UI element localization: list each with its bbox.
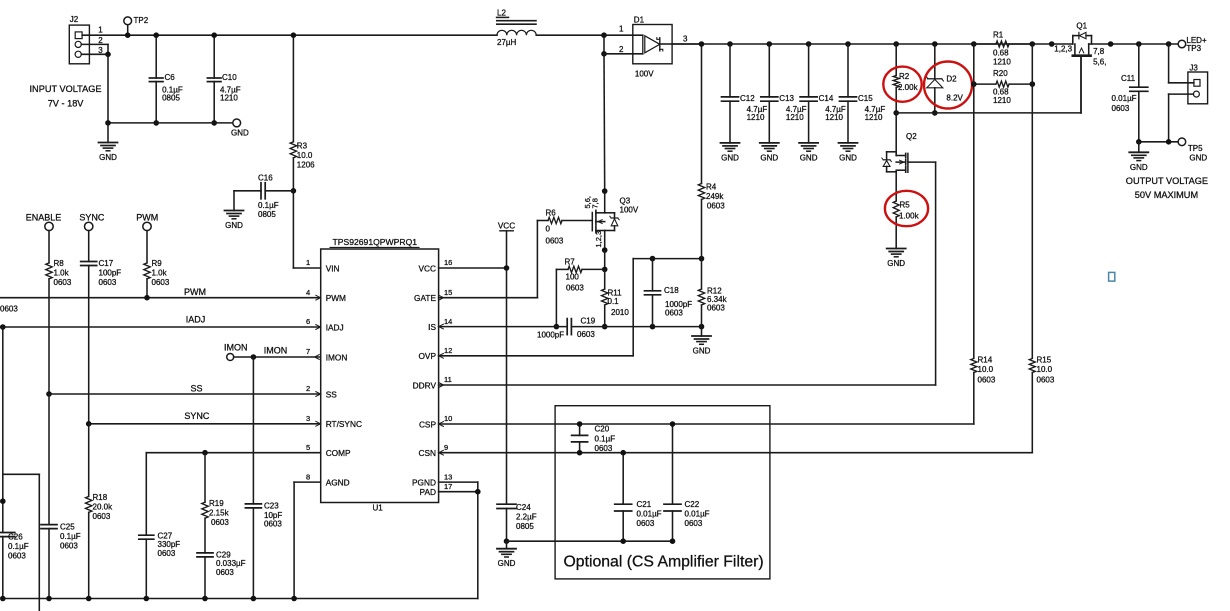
test point GND input	[231, 119, 249, 138]
node OVP R4 R12 junction	[699, 256, 705, 262]
wire J3 pin2 to output ground	[1169, 94, 1194, 142]
svg-text:COMP: COMP	[326, 448, 351, 458]
ground symbol input	[99, 123, 118, 162]
svg-text:0603: 0603	[8, 552, 26, 561]
node R12 bottom ground	[699, 324, 705, 330]
node C11 top	[1136, 41, 1142, 47]
svg-text:CSP: CSP	[419, 419, 437, 429]
node D1 pin1 junction	[601, 32, 607, 38]
capacitor C19	[537, 317, 596, 340]
node D2 bottom junction	[932, 110, 938, 116]
wire VCC down to C24	[506, 268, 508, 504]
wire input VIN+ top rail	[82, 34, 497, 36]
svg-text:17: 17	[444, 482, 452, 491]
svg-text:0603: 0603	[566, 283, 584, 292]
node OVP C18 junction	[650, 256, 656, 262]
resistor R15	[1029, 356, 1055, 453]
svg-text:VCC: VCC	[498, 221, 515, 230]
node PGND PAD junction	[475, 489, 481, 495]
svg-text:1210: 1210	[865, 113, 883, 122]
test point TP3 LED+	[1178, 36, 1207, 53]
svg-text:0603: 0603	[685, 519, 703, 528]
node C14 top	[806, 41, 812, 47]
svg-text:0603: 0603	[211, 518, 229, 527]
svg-text:GND: GND	[99, 153, 117, 162]
capacitor C21	[615, 453, 662, 542]
box optional CS amplifier filter	[555, 406, 770, 579]
node rail C23	[251, 596, 257, 602]
node C13 top	[767, 41, 773, 47]
svg-text:IADJ: IADJ	[186, 315, 206, 325]
svg-text:0603: 0603	[707, 303, 725, 312]
node C12 top	[727, 41, 733, 47]
wire U1 CSN to R15	[439, 452, 1033, 454]
svg-text:VIN: VIN	[326, 263, 340, 273]
svg-text:L2: L2	[497, 9, 506, 18]
wire left branch stub vertical	[38, 474, 40, 611]
wire gate rail R2 D2 to Q1 gate	[896, 57, 1081, 113]
svg-text:R1: R1	[993, 31, 1004, 40]
svg-text:Q2: Q2	[906, 132, 917, 141]
wire D1 pin3 to output rail	[672, 43, 701, 45]
node J3 pin2 bottom	[1166, 139, 1172, 145]
node R1 left	[971, 41, 977, 47]
svg-text:20.0k: 20.0k	[93, 503, 114, 512]
node IMON junction	[251, 354, 257, 360]
svg-text:D1: D1	[634, 16, 645, 25]
svg-text:PWM: PWM	[326, 293, 346, 303]
wire R3 to U1 VIN	[293, 267, 320, 269]
svg-text:1.00k: 1.00k	[899, 211, 920, 220]
svg-text:VCC: VCC	[418, 263, 436, 273]
resistor R20	[974, 69, 1033, 105]
svg-text:0.1µF: 0.1µF	[8, 542, 29, 551]
node rail AGND	[291, 596, 297, 602]
svg-text:R9: R9	[152, 259, 163, 268]
svg-text:0: 0	[546, 225, 551, 234]
svg-text:GND: GND	[887, 259, 905, 268]
svg-text:PWM: PWM	[184, 287, 206, 297]
svg-text:R3: R3	[297, 142, 308, 151]
test point TP5 GND	[1178, 138, 1207, 162]
svg-text:2: 2	[306, 384, 310, 393]
svg-text:7V - 18V: 7V - 18V	[48, 99, 85, 109]
svg-text:10.0: 10.0	[1037, 365, 1053, 374]
node D2 top	[932, 41, 938, 47]
svg-text:C13: C13	[779, 94, 794, 103]
svg-text:10: 10	[444, 414, 452, 423]
svg-text:R8: R8	[54, 259, 65, 268]
node rail R18	[86, 596, 92, 602]
svg-text:2.2µF: 2.2µF	[516, 513, 537, 522]
svg-text:2.00k: 2.00k	[898, 83, 919, 92]
svg-text:1000pF: 1000pF	[537, 331, 564, 340]
node D1 pin2 junction	[601, 51, 607, 57]
wire J2 pin3 to input ground rail	[107, 54, 109, 123]
node R7 junction	[602, 267, 608, 273]
svg-text:SYNC: SYNC	[184, 411, 210, 421]
svg-text:0603: 0603	[1112, 104, 1130, 113]
ground symbol C24	[497, 541, 516, 568]
resistor R8	[46, 231, 72, 394]
wire input ground rail	[108, 122, 233, 124]
node VCC junction	[504, 265, 510, 271]
svg-text:13: 13	[444, 472, 452, 481]
svg-text:C19: C19	[581, 317, 596, 326]
svg-text:TP5: TP5	[1188, 144, 1203, 153]
svg-text:RT/SYNC: RT/SYNC	[326, 419, 362, 429]
svg-text:0.01µF: 0.01µF	[1112, 94, 1137, 103]
svg-text:Q3: Q3	[620, 197, 631, 206]
capacitor C29	[197, 551, 246, 599]
svg-text:CSN: CSN	[418, 448, 436, 458]
ground symbol C12	[721, 143, 740, 163]
svg-text:0603: 0603	[546, 237, 564, 246]
svg-text:6: 6	[306, 317, 310, 326]
svg-text:1: 1	[619, 25, 624, 34]
ground symbol output	[1129, 142, 1148, 172]
node rail C26	[0, 596, 6, 602]
capacitor C18	[645, 259, 693, 327]
svg-text:PAD: PAD	[420, 487, 436, 497]
svg-text:PWM: PWM	[136, 213, 158, 223]
svg-text:4: 4	[306, 288, 310, 297]
wire output rail after Q1	[1089, 43, 1178, 45]
wire output rail	[672, 43, 1052, 45]
capacitor C27	[139, 453, 180, 599]
capacitor C20	[572, 424, 616, 453]
pin numbers U1 right	[444, 258, 452, 491]
diode D2 zener 8.2V	[926, 44, 963, 113]
capacitor C13 4.7uF	[761, 44, 807, 143]
svg-text:0603: 0603	[99, 278, 117, 287]
resistor R18	[86, 424, 114, 599]
svg-text:7,8: 7,8	[1093, 47, 1105, 56]
svg-text:1210: 1210	[220, 93, 238, 102]
svg-text:8.2V: 8.2V	[946, 93, 963, 102]
svg-text:0603: 0603	[60, 542, 78, 551]
svg-text:C12: C12	[740, 94, 755, 103]
ground symbol C14	[799, 143, 818, 163]
highlight circle D2	[924, 62, 972, 109]
wire net PWM	[0, 287, 321, 298]
ground symbol R12	[692, 327, 711, 356]
wire C24 node to CS filter	[507, 540, 673, 542]
resistor R5	[893, 200, 919, 248]
pin arrows U1	[315, 295, 444, 455]
svg-text:0603: 0603	[707, 201, 725, 210]
wire CSP sense vertical	[973, 44, 975, 358]
svg-text:1210: 1210	[747, 113, 765, 122]
resistor R2	[893, 44, 918, 113]
node C10 top	[211, 32, 217, 38]
svg-text:15: 15	[444, 288, 452, 297]
capacitor C23	[245, 502, 282, 599]
node R3 C16 junction	[291, 188, 297, 194]
svg-text:IADJ: IADJ	[326, 322, 344, 332]
svg-text:C17: C17	[99, 259, 114, 268]
wire U1 PAD pin	[439, 491, 478, 493]
capacitor C11	[1112, 44, 1148, 142]
node TP2 junction	[125, 32, 131, 38]
svg-text:C25: C25	[60, 523, 75, 532]
svg-text:1210: 1210	[993, 57, 1011, 66]
resistor R4	[698, 44, 725, 259]
test point IMON	[224, 343, 248, 361]
svg-text:330pF: 330pF	[158, 540, 181, 549]
svg-text:R4: R4	[706, 182, 717, 191]
svg-text:11: 11	[444, 375, 452, 384]
svg-text:GND: GND	[1130, 163, 1148, 172]
svg-text:7,8: 7,8	[590, 198, 599, 208]
wire IADJ left branch vertical	[2, 327, 4, 533]
wire U1 PGND pin	[439, 481, 478, 483]
svg-text:0805: 0805	[516, 522, 534, 531]
wire net SS	[49, 384, 321, 395]
node C18 bottom	[650, 324, 656, 330]
wire U1 DDRV to Q2 gate	[439, 162, 936, 385]
node R2 bottom junction	[893, 110, 899, 116]
svg-text:3: 3	[683, 35, 688, 44]
node rail after Q1	[1108, 41, 1114, 47]
svg-text:C16: C16	[258, 174, 273, 183]
svg-text:SYNC: SYNC	[79, 213, 105, 223]
svg-text:TP2: TP2	[134, 16, 149, 25]
svg-text:0603: 0603	[152, 278, 170, 287]
node C15 top	[845, 41, 851, 47]
wire AGND to ground rail	[294, 482, 321, 598]
wire IS line right of C19	[571, 326, 701, 328]
svg-text:C22: C22	[685, 500, 700, 509]
svg-text:5,6,: 5,6,	[1093, 58, 1106, 67]
svg-text:GND: GND	[839, 153, 857, 162]
node R9 PWM junction	[144, 295, 150, 301]
power symbol VCC	[498, 221, 515, 268]
svg-text:3: 3	[98, 46, 103, 55]
svg-text:0.033µF: 0.033µF	[216, 559, 246, 568]
svg-text:2.15k: 2.15k	[209, 509, 230, 518]
svg-text:R19: R19	[209, 499, 224, 508]
svg-text:0.1µF: 0.1µF	[595, 435, 616, 444]
svg-text:R15: R15	[1037, 356, 1052, 365]
node Q1 left junction	[1049, 41, 1055, 47]
svg-text:R6: R6	[546, 209, 557, 218]
svg-text:GND: GND	[760, 153, 778, 162]
svg-text:C15: C15	[858, 94, 873, 103]
node C20 top	[577, 421, 583, 427]
node rail C29	[202, 596, 208, 602]
svg-text:0603: 0603	[216, 568, 234, 577]
svg-text:TP3: TP3	[1186, 44, 1201, 53]
svg-text:100pF: 100pF	[99, 269, 122, 278]
svg-text:100V: 100V	[620, 206, 639, 215]
ground symbol R5	[887, 249, 906, 269]
svg-text:1210: 1210	[825, 113, 843, 122]
test point ENABLE	[26, 213, 62, 231]
svg-text:9: 9	[444, 443, 448, 452]
node R8 SS junction	[46, 391, 52, 397]
svg-text:R18: R18	[93, 493, 108, 502]
svg-text:1210: 1210	[786, 113, 804, 122]
svg-text:R7: R7	[565, 257, 576, 266]
node R3 top rail	[291, 32, 297, 38]
wire output ground rail	[1139, 141, 1178, 143]
svg-text:1.0k: 1.0k	[54, 269, 70, 278]
node R20 left	[971, 81, 977, 87]
resistor R6	[546, 209, 593, 246]
svg-text:0.1µF: 0.1µF	[60, 532, 81, 541]
resistor R11	[602, 269, 630, 326]
svg-text:27µH: 27µH	[497, 38, 517, 47]
svg-text:50V MAXIMUM: 50V MAXIMUM	[1135, 190, 1198, 200]
svg-text:AGND: AGND	[326, 478, 350, 488]
capacitor C6	[149, 35, 182, 123]
node C11 bottom	[1136, 139, 1142, 145]
connector J3	[1188, 64, 1208, 104]
node rail C27	[144, 596, 150, 602]
svg-text:C24: C24	[516, 503, 531, 512]
svg-text:1: 1	[98, 26, 103, 35]
capacitor C14 4.7uF	[800, 44, 846, 143]
transistor Q1	[1052, 22, 1107, 113]
svg-text:GND: GND	[225, 221, 243, 230]
node input ground junction	[105, 120, 111, 126]
svg-text:0603: 0603	[595, 444, 613, 453]
node C6 bottom	[153, 120, 159, 126]
svg-text:1,2,3: 1,2,3	[594, 231, 603, 248]
wire net IADJ	[0, 315, 321, 328]
wire U1 CSP to R14	[439, 423, 974, 425]
node Q3 source	[602, 247, 608, 253]
node R19 COMP junction	[202, 450, 208, 456]
svg-text:2010: 2010	[611, 308, 629, 317]
svg-text:0.01µF: 0.01µF	[685, 510, 710, 519]
svg-text:Q1: Q1	[1076, 22, 1087, 31]
svg-text:GND: GND	[693, 347, 711, 356]
svg-text:J3: J3	[1189, 64, 1198, 73]
node Q3 drain junction	[602, 188, 608, 194]
node C21 top	[620, 450, 626, 456]
svg-text:Optional (CS Amplifier Filter): Optional (CS Amplifier Filter)	[564, 554, 764, 571]
svg-text:7: 7	[306, 347, 310, 356]
svg-text:0603: 0603	[93, 512, 111, 521]
wire net IMON	[234, 346, 321, 358]
resistor R12	[698, 259, 727, 327]
svg-text:0603: 0603	[1037, 376, 1055, 385]
svg-text:J2: J2	[70, 15, 79, 24]
svg-text:0603: 0603	[978, 376, 996, 385]
svg-text:C26: C26	[8, 533, 23, 542]
svg-text:OUTPUT VOLTAGE: OUTPUT VOLTAGE	[1126, 176, 1208, 186]
svg-text:249k: 249k	[706, 192, 724, 201]
node C10 bottom	[211, 120, 217, 126]
wire Q3 source to R11	[604, 250, 606, 269]
ground symbol C16	[225, 191, 244, 230]
svg-text:R2: R2	[899, 72, 910, 81]
node C20 bottom	[577, 450, 583, 456]
wire analog ground rail	[3, 598, 478, 600]
svg-text:14: 14	[444, 317, 452, 326]
svg-text:ENABLE: ENABLE	[26, 213, 62, 223]
wire ground rail to PGND	[477, 482, 479, 598]
svg-text:100: 100	[566, 272, 580, 281]
capacitor C24	[497, 503, 537, 541]
wire IMON branch vertical	[252, 357, 254, 504]
test point PWM	[136, 213, 158, 231]
capacitor C15 4.7uF	[840, 44, 886, 143]
wire D1 pin1-pin2 link	[603, 35, 605, 54]
transistor Q3 100V	[583, 191, 639, 250]
node IADJ left junction	[0, 324, 6, 330]
svg-text:0603: 0603	[158, 549, 176, 558]
wire left branch stub horizontal	[3, 473, 40, 475]
diode D1 100V	[619, 16, 688, 79]
resistor R14	[971, 356, 996, 424]
capacitor C22	[664, 424, 710, 541]
node rail C25	[46, 596, 52, 602]
resistor R19	[202, 453, 230, 553]
svg-text:D2: D2	[946, 75, 957, 84]
svg-text:INPUT VOLTAGE: INPUT VOLTAGE	[30, 84, 102, 94]
svg-text:C23: C23	[264, 502, 279, 511]
svg-text:GND: GND	[231, 129, 249, 138]
resistor R1	[974, 31, 1033, 67]
node R20 right	[1030, 81, 1036, 87]
node C22 top	[670, 421, 676, 427]
svg-text:10.0: 10.0	[978, 365, 994, 374]
svg-text:IMON: IMON	[264, 346, 288, 356]
resistor R9	[144, 231, 170, 298]
svg-text:3: 3	[306, 414, 310, 423]
svg-text:C20: C20	[595, 424, 610, 433]
svg-text:C6: C6	[165, 73, 176, 82]
svg-text:1206: 1206	[297, 161, 315, 170]
svg-text:OVP: OVP	[418, 351, 436, 361]
wire net COMP	[146, 452, 320, 454]
svg-text:R14: R14	[978, 356, 993, 365]
node R2 top	[893, 41, 899, 47]
wire Q3 drain from D1 pin2	[603, 54, 606, 191]
capacitor C26	[0, 533, 29, 599]
svg-text:8: 8	[306, 472, 310, 481]
svg-text:R20: R20	[993, 69, 1008, 78]
test point TP2	[124, 16, 149, 35]
wire U1 VCC pin	[439, 267, 507, 269]
node J3 pin1 junction	[1166, 41, 1172, 47]
svg-text:SS: SS	[326, 389, 338, 399]
capacitor C12 4.7uF	[722, 44, 768, 143]
svg-text:0603: 0603	[665, 308, 683, 317]
svg-text:1.0k: 1.0k	[152, 269, 168, 278]
wire J2 pin3 lead	[81, 53, 108, 55]
svg-text:0805: 0805	[258, 210, 276, 219]
highlight circle R5	[885, 191, 928, 226]
wire J3 pin1 to rail	[1169, 44, 1194, 83]
wire J2 pin2 lead	[81, 44, 108, 54]
svg-text:12: 12	[444, 346, 452, 355]
node C24 ground junction	[504, 538, 510, 544]
svg-text:C10: C10	[222, 73, 237, 82]
svg-text:GND: GND	[800, 153, 818, 162]
svg-text:0603: 0603	[54, 278, 72, 287]
svg-text:0805: 0805	[162, 93, 180, 102]
node output rail R4	[699, 41, 705, 47]
svg-text:1210: 1210	[993, 96, 1011, 105]
capacitor C25	[41, 394, 81, 599]
node J2 pin3 junction	[105, 52, 111, 58]
svg-text:IS: IS	[428, 322, 436, 332]
svg-text:2: 2	[619, 45, 624, 54]
